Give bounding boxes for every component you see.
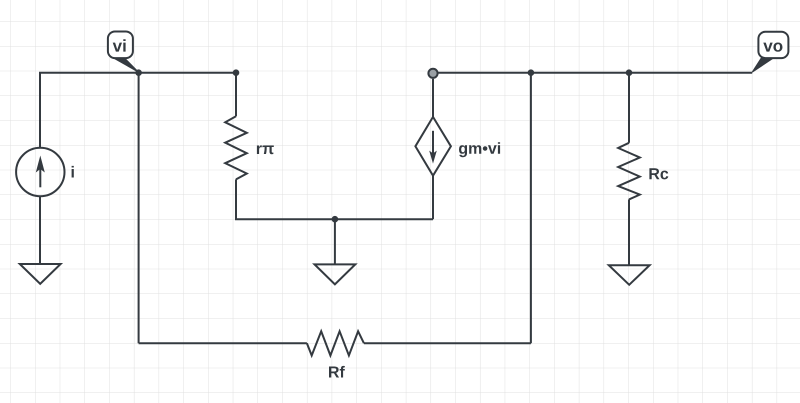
arrowhead dependent source xyxy=(429,151,437,164)
label i xyxy=(72,166,74,178)
wire mid ground xyxy=(334,219,336,264)
wire vi node down to Rf left xyxy=(138,73,140,344)
label Rf xyxy=(329,366,345,378)
wire Rc bottom xyxy=(628,199,630,265)
node dot Rc top xyxy=(626,69,633,76)
wire top-left: current source top to node vi to rpi top xyxy=(40,73,236,148)
wire diamond bottom xyxy=(432,176,434,220)
wire rpi top xyxy=(235,73,237,117)
dependent source top wire xyxy=(432,79,434,117)
label vo callout xyxy=(752,32,788,72)
dependent current source diamond xyxy=(415,117,451,176)
node dot rpi top xyxy=(233,69,240,76)
label Rc xyxy=(649,168,668,179)
resistor Rf xyxy=(307,331,364,355)
wire rpi bottom to mid node xyxy=(236,179,433,219)
wire Rf left xyxy=(139,342,307,344)
ground right xyxy=(609,265,650,285)
wire current source bottom xyxy=(39,196,41,264)
wire Rc top xyxy=(628,73,630,143)
resistor Rc xyxy=(618,143,640,200)
label rpi xyxy=(257,145,274,154)
dependent source top terminal ring xyxy=(428,69,437,78)
ground mid xyxy=(315,264,356,284)
arrow of dependent source xyxy=(432,131,434,156)
wire right vertical to Rf xyxy=(530,73,532,344)
label vi callout xyxy=(108,32,139,73)
node dot right-1 xyxy=(528,69,535,76)
node dot vi xyxy=(135,69,142,76)
current source I1 xyxy=(16,148,64,196)
arrowhead current source xyxy=(36,156,45,173)
node dot mid ground xyxy=(332,216,339,223)
ground left xyxy=(20,264,61,284)
arrow of current source xyxy=(39,169,41,188)
label gm*vi xyxy=(459,142,500,157)
wire top-right run xyxy=(438,72,752,74)
resistor rpi xyxy=(225,116,247,179)
wire Rf right xyxy=(364,342,531,344)
